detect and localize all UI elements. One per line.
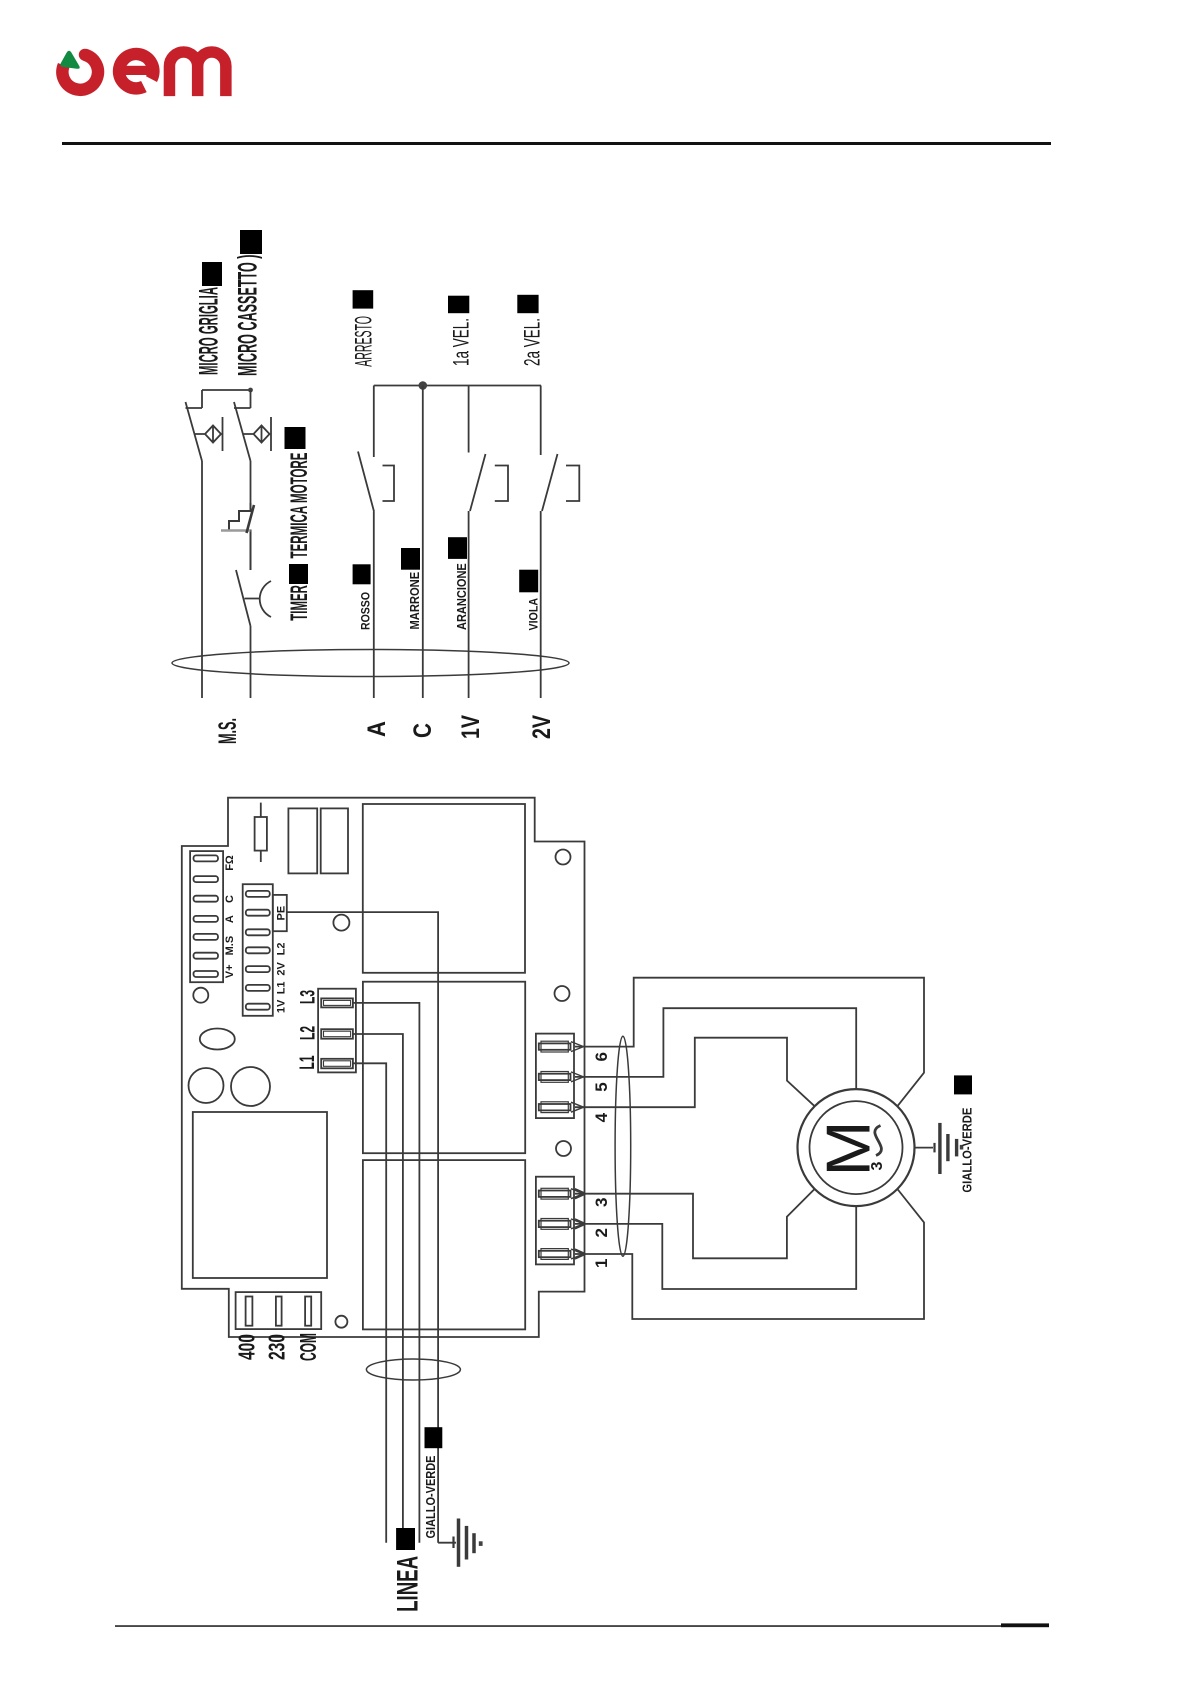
svg-text:COM: COM <box>295 1333 321 1361</box>
redaction square <box>353 564 371 584</box>
svg-text:C: C <box>409 723 437 738</box>
wire A <box>373 512 375 699</box>
switch MICRO CASSETTO <box>234 390 271 461</box>
svg-text:3: 3 <box>592 1198 611 1207</box>
oval pad <box>200 1029 235 1050</box>
svg-text:ROSSO: ROSSO <box>359 592 373 630</box>
pin chevron 2 <box>571 1219 585 1229</box>
svg-text:GIALLO-VERDE: GIALLO-VERDE <box>423 1455 438 1538</box>
wire L3 <box>353 1003 420 1543</box>
connector 400/230/COM <box>236 1292 322 1329</box>
svg-text:4: 4 <box>592 1112 611 1122</box>
svg-text:TERMICA MOTORE: TERMICA MOTORE <box>286 453 313 559</box>
wire 6 <box>575 978 924 1106</box>
svg-text:TIMER: TIMER <box>286 585 313 621</box>
cable ellipse LINEA <box>366 1359 460 1380</box>
wire 3 <box>575 1189 815 1258</box>
svg-text:1V: 1V <box>457 715 485 739</box>
svg-text:2V: 2V <box>528 715 556 739</box>
svg-text:ARANCIONE: ARANCIONE <box>454 563 469 630</box>
pushbutton 2a VEL <box>541 386 580 512</box>
fuse block 2 <box>321 808 348 873</box>
capacitor circle 1 <box>189 1068 224 1103</box>
wire L1 <box>353 1063 386 1542</box>
svg-text:V+: V+ <box>224 964 236 978</box>
redaction square <box>448 296 469 314</box>
capacitor circle 2 <box>231 1067 270 1106</box>
timer contact TIMER <box>236 570 271 626</box>
svg-text:L2: L2 <box>297 1026 320 1040</box>
relay block K3 <box>363 1160 525 1329</box>
redaction square <box>519 570 538 593</box>
svg-text:GIALLO-VERDE: GIALLO-VERDE <box>960 1107 975 1192</box>
wire 4 <box>575 1038 815 1108</box>
redaction square <box>240 230 262 254</box>
svg-text:230: 230 <box>264 1334 290 1360</box>
wire 1 <box>575 1189 924 1319</box>
svg-text:PE: PE <box>276 906 288 921</box>
wire PE <box>287 912 438 1543</box>
cable ellipse <box>172 650 569 677</box>
svg-text:2: 2 <box>592 1228 611 1237</box>
svg-text:L1: L1 <box>296 1055 319 1069</box>
wire 2V <box>540 511 542 698</box>
wire M.S. <box>201 461 203 698</box>
hole <box>556 850 571 865</box>
ground motor <box>915 1123 964 1174</box>
hole <box>555 986 570 1001</box>
svg-text:M.S: M.S <box>224 936 236 956</box>
hole <box>556 1141 571 1156</box>
PE box <box>273 895 287 931</box>
svg-text:2a VEL.: 2a VEL. <box>520 318 545 366</box>
pin chevron 4 <box>571 1102 584 1112</box>
pin chevron 6 <box>571 1042 584 1052</box>
svg-text:5: 5 <box>592 1082 611 1091</box>
hole <box>193 988 208 1003</box>
OEM logo <box>60 49 226 96</box>
redaction square <box>401 548 420 570</box>
PCB board outline <box>182 798 585 1337</box>
resistor <box>255 803 267 862</box>
svg-text:VIOLA: VIOLA <box>527 598 541 631</box>
wire L2 <box>353 1034 403 1543</box>
motor connector lower <box>536 1177 574 1265</box>
svg-text:MARRONE: MARRONE <box>407 572 422 630</box>
transformer block <box>193 1112 327 1278</box>
svg-text:L2: L2 <box>276 943 288 956</box>
motor M1 <box>798 1089 915 1206</box>
redaction square <box>954 1075 972 1094</box>
motor connector upper <box>536 1034 574 1119</box>
svg-text:L3: L3 <box>297 990 320 1004</box>
svg-text:MICRO CASSETTO ): MICRO CASSETTO ) <box>233 255 263 377</box>
relay block K1 <box>363 804 525 973</box>
svg-text:FΩ: FΩ <box>224 855 236 871</box>
pin chevron 5 <box>571 1072 584 1082</box>
redaction square LINEA <box>396 1528 415 1550</box>
header rule <box>62 142 1051 145</box>
svg-text:3: 3 <box>869 1162 886 1171</box>
connector J2 <box>243 884 273 1016</box>
wire bus <box>374 385 541 387</box>
redaction square <box>448 537 467 559</box>
cable ellipse motor <box>615 1036 631 1256</box>
wire 5 <box>575 1008 856 1089</box>
svg-text:1: 1 <box>592 1259 611 1268</box>
connector J1 <box>190 851 223 982</box>
redaction square <box>289 564 308 584</box>
pin chevron 1 <box>571 1249 585 1259</box>
wire 1V <box>468 511 470 698</box>
wire C <box>422 386 424 699</box>
relay block K2 <box>363 982 525 1153</box>
pushbutton 1a VEL <box>469 386 508 512</box>
wire top rail <box>202 389 251 391</box>
svg-text:M.S.: M.S. <box>214 718 242 744</box>
wire to thermal <box>250 461 252 503</box>
hole <box>335 1316 347 1328</box>
svg-text:ARRESTO: ARRESTO <box>351 316 378 367</box>
redaction square <box>517 295 538 313</box>
redaction square <box>285 427 306 449</box>
redaction square <box>353 290 374 308</box>
wire 2 <box>575 1206 856 1289</box>
svg-text:C: C <box>224 895 236 903</box>
pin chevron 3 <box>571 1189 585 1199</box>
footer rule <box>115 1625 1001 1627</box>
hole <box>333 915 349 931</box>
fuse block 1 <box>288 808 317 873</box>
thermal element TERMICA MOTORE <box>221 503 254 570</box>
svg-text:A: A <box>363 721 391 737</box>
svg-text:1V: 1V <box>276 999 288 1013</box>
pushbutton ARRESTO <box>358 386 394 512</box>
svg-text:A: A <box>224 915 236 923</box>
svg-text:L1: L1 <box>276 981 288 994</box>
junction dot <box>248 388 253 393</box>
redaction square <box>425 1427 443 1448</box>
svg-text:1a VEL.: 1a VEL. <box>449 318 474 366</box>
svg-text:2V: 2V <box>276 961 288 975</box>
svg-text:LINEA: LINEA <box>392 1556 425 1612</box>
connector L1 L2 L3 <box>318 989 356 1073</box>
svg-text:MICRO GRIGLIA: MICRO GRIGLIA <box>194 287 224 375</box>
wire to terminal M.S. side <box>250 626 252 698</box>
motor tilde <box>875 1126 882 1156</box>
node C junction <box>419 381 428 390</box>
switch MICRO GRIGLIA <box>186 390 223 461</box>
svg-text:6: 6 <box>592 1052 611 1061</box>
footer rule thick end <box>1001 1623 1049 1627</box>
svg-text:400: 400 <box>234 1334 260 1360</box>
ground LINEA PE <box>438 1519 482 1567</box>
redaction square <box>202 262 222 286</box>
